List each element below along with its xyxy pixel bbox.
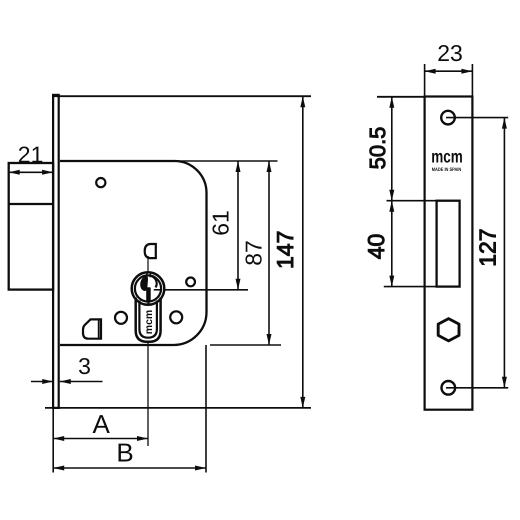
key silhouette <box>140 273 158 304</box>
ext line 147 top <box>53 95 311 97</box>
svg-text:50.5: 50.5 <box>365 127 390 170</box>
top hole leader line <box>446 117 508 119</box>
dim A line <box>53 438 148 440</box>
euro cylinder inner body <box>139 301 157 338</box>
svg-text:3: 3 <box>78 353 91 379</box>
euro cylinder outer body <box>136 298 161 342</box>
dim 127 line <box>503 118 505 388</box>
dim 3 left arrow <box>31 381 53 383</box>
svg-text:147: 147 <box>272 231 298 269</box>
faceplate front outline <box>425 97 473 410</box>
deadbolt divider line <box>9 203 53 205</box>
cylinder centerline dash <box>154 289 162 291</box>
follower hole left <box>115 312 127 324</box>
svg-text:MADE IN SPAIN: MADE IN SPAIN <box>432 167 462 173</box>
euro cylinder outer circle <box>132 272 165 305</box>
svg-text:87: 87 <box>240 240 266 266</box>
top screw hole <box>441 111 455 125</box>
ext stub cutout top <box>387 200 437 202</box>
svg-text:127: 127 <box>474 228 500 266</box>
dim 50.5 line <box>391 97 393 201</box>
ext line case bottom right (for 87) <box>210 344 281 346</box>
deadbolt box <box>9 163 53 290</box>
dim B line <box>53 467 206 469</box>
ext line faceplate top left (50.5) <box>377 96 425 98</box>
svg-text:B: B <box>116 438 133 468</box>
case hole mid-right <box>186 278 195 287</box>
faceplate side view (strip) <box>53 95 59 408</box>
svg-text:23: 23 <box>437 40 463 66</box>
lock case outline <box>60 161 207 345</box>
dim 147 line <box>302 96 304 408</box>
follower hole right <box>170 311 182 323</box>
svg-text:40: 40 <box>363 234 389 260</box>
dim 23 ext lines <box>424 64 426 97</box>
svg-text:61: 61 <box>208 210 234 236</box>
euro cylinder inner circle <box>135 275 161 301</box>
D-shaped hole <box>145 244 156 258</box>
svg-text:21: 21 <box>18 142 44 168</box>
dim 87 line <box>268 161 270 345</box>
dim 3 right arrow <box>60 381 103 383</box>
dim 21 line <box>9 171 53 173</box>
cylinder vertical centerline upper <box>147 256 149 272</box>
ext line 147 bottom <box>45 407 311 409</box>
dim 40 line <box>391 201 393 287</box>
ext line case top (for 61/87) <box>174 160 278 162</box>
hex hole <box>438 319 459 341</box>
strike cutout <box>437 201 460 287</box>
svg-text:mcm: mcm <box>431 146 463 167</box>
dim 23 line <box>425 70 473 72</box>
ext stub cutout bottom <box>384 286 437 288</box>
ext line bolt bottom right (for 61) <box>165 289 249 291</box>
svg-text:A: A <box>93 409 111 439</box>
svg-text:mcm: mcm <box>143 310 155 335</box>
case hole upper-left <box>96 178 105 187</box>
bottom hole leader line <box>446 387 508 389</box>
bottom screw hole <box>442 381 456 395</box>
cam shape lower-left <box>83 319 101 338</box>
cylinder centerline extension down <box>147 342 149 446</box>
ext line left (A/B) <box>52 408 54 473</box>
dim 61 line <box>237 161 239 290</box>
ext line case right edge down <box>205 345 207 473</box>
